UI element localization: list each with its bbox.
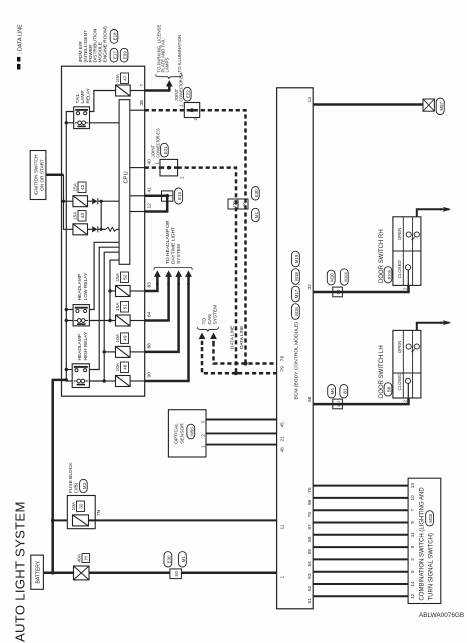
wire sensor pin1 to BCM 46 bbox=[206, 444, 277, 446]
label 15A 43 bbox=[73, 211, 86, 222]
label BCM pin 11 bbox=[279, 524, 285, 529]
arrow 84 bbox=[165, 270, 172, 285]
wire cpu pin41 bbox=[130, 195, 145, 197]
wire fuse43 output bbox=[88, 228, 120, 230]
svg-text:HEADLAMP: HEADLAMP bbox=[77, 334, 83, 360]
arrow to parking lamps bbox=[166, 80, 173, 92]
brace parking/illumination bbox=[156, 74, 183, 79]
label DATA LINE lower bbox=[239, 326, 244, 349]
label DATA LINE upper bbox=[229, 326, 234, 349]
wire sensor pin3 to BCM 45 bbox=[206, 419, 277, 421]
wire pin 38 dashed bbox=[145, 110, 277, 363]
label HEADLAMP LOW RELAY bbox=[77, 272, 89, 300]
svg-text:TO ILLUMINATION: TO ILLUMINATION bbox=[177, 35, 182, 73]
label BCM pin 75 bbox=[307, 487, 313, 493]
label comb switch pin 9 bbox=[410, 521, 415, 524]
node CAN B junction bbox=[243, 361, 247, 365]
label 15A 42 bbox=[73, 182, 86, 193]
label BCM pin 53 bbox=[307, 573, 313, 579]
connector oval E99 bbox=[120, 48, 128, 62]
svg-text:8G: 8G bbox=[174, 571, 179, 577]
wire high coil line3 bbox=[89, 252, 119, 381]
label pin 90 bbox=[147, 372, 153, 378]
svg-text:96: 96 bbox=[307, 499, 313, 505]
node high relay coil feed bbox=[65, 378, 68, 381]
arrow 88 bbox=[175, 270, 182, 285]
svg-text:E15: E15 bbox=[177, 192, 182, 200]
node low relay coil feed bbox=[65, 319, 68, 322]
wire battery bus horizontal bbox=[52, 380, 67, 573]
svg-text:M18: M18 bbox=[294, 272, 299, 281]
wire CAN A branch arrow bbox=[202, 345, 236, 373]
wire low relay coil feed bbox=[66, 320, 73, 322]
fuse 15A 51 bbox=[116, 315, 131, 326]
label 10A 48 bbox=[115, 362, 128, 373]
svg-text:: DATA LINE: : DATA LINE bbox=[17, 24, 23, 54]
svg-text:M57: M57 bbox=[439, 101, 444, 110]
label pin 41 bbox=[147, 187, 153, 193]
label sensor pin 2 bbox=[200, 434, 205, 437]
wire fuse block feed bbox=[53, 519, 277, 521]
node fuse42 tap bbox=[62, 200, 65, 203]
label BCM pin 76 bbox=[307, 512, 313, 518]
svg-text:M10: M10 bbox=[330, 273, 335, 282]
svg-text:48: 48 bbox=[123, 364, 129, 370]
svg-text:14: 14 bbox=[410, 581, 415, 587]
connector E15 box bbox=[162, 191, 173, 201]
svg-text:E30: E30 bbox=[166, 555, 171, 563]
label 10A 32 bbox=[71, 501, 84, 512]
label BCM pin 52 bbox=[307, 585, 313, 591]
wire low coil line4 bbox=[89, 260, 119, 320]
svg-text:2: 2 bbox=[402, 287, 407, 290]
fusible link 40A H bbox=[74, 566, 90, 580]
label BCM pin 97 bbox=[307, 524, 313, 530]
fuse block (J/B) box bbox=[67, 496, 95, 529]
wire fuse 52 feed bbox=[110, 290, 116, 292]
svg-text:M19: M19 bbox=[294, 254, 299, 263]
svg-text:OPEN: OPEN bbox=[397, 228, 402, 240]
title AUTO LIGHT SYSTEM bbox=[12, 501, 27, 642]
svg-text:E99: E99 bbox=[123, 51, 128, 59]
wire sensor pin2 to BCM 21 bbox=[206, 432, 277, 434]
svg-text:83: 83 bbox=[147, 282, 153, 288]
connector 8G (M1/E30) on battery wire bbox=[170, 569, 182, 579]
wire pin 41 external bbox=[145, 195, 168, 198]
label BCM pin 58 bbox=[307, 396, 313, 402]
svg-text:5: 5 bbox=[410, 570, 415, 573]
label TO ILLUMINATION bbox=[177, 35, 182, 73]
wire tail relay coil feed bbox=[66, 122, 73, 124]
figure number bbox=[419, 612, 464, 619]
connector 17J box (M6/B1) bbox=[333, 399, 343, 409]
wire door RH to ground arrow bbox=[417, 209, 442, 217]
svg-text:6G: 6G bbox=[241, 201, 246, 206]
svg-text:7: 7 bbox=[410, 509, 415, 512]
svg-text:TO: TO bbox=[201, 318, 207, 325]
svg-text:53: 53 bbox=[307, 573, 313, 579]
connector oval E30 (CAN) bbox=[252, 187, 260, 200]
label comb switch pin 5 bbox=[410, 570, 415, 573]
wire BCM pin58 to door switch LH bbox=[313, 398, 408, 404]
svg-text:84: 84 bbox=[147, 311, 153, 317]
svg-text:10: 10 bbox=[410, 495, 415, 501]
svg-text:76: 76 bbox=[307, 512, 313, 518]
relay tail lamp bbox=[74, 107, 90, 129]
wire cpu pin12 bbox=[130, 211, 145, 213]
svg-text:3: 3 bbox=[200, 421, 205, 424]
svg-text:7: 7 bbox=[139, 84, 145, 87]
label FUSE BLOCK (J/B) M3 bbox=[68, 462, 87, 493]
svg-text:2: 2 bbox=[193, 118, 198, 121]
svg-text:B108: B108 bbox=[387, 269, 392, 279]
label BCM pin 51 bbox=[307, 598, 313, 604]
fuse 10A 49 bbox=[116, 346, 131, 357]
label pin 12 bbox=[147, 203, 153, 209]
svg-text:49: 49 bbox=[123, 335, 129, 341]
svg-text:11: 11 bbox=[279, 524, 285, 529]
ground M57 bbox=[423, 99, 434, 111]
svg-text:45: 45 bbox=[279, 422, 285, 428]
svg-text:RELAY: RELAY bbox=[85, 87, 91, 103]
label comb switch pin 2 bbox=[410, 558, 415, 561]
label comb switch pin 14 bbox=[410, 581, 415, 587]
label 15A 52 bbox=[115, 272, 128, 283]
label CLOSED LH bbox=[397, 372, 402, 390]
wire fuse 48 feed bbox=[104, 380, 115, 382]
svg-text:42: 42 bbox=[80, 184, 86, 190]
wire door LH to ground arrow bbox=[417, 323, 442, 331]
svg-text:2: 2 bbox=[410, 558, 415, 561]
fuse 10A 48 bbox=[116, 376, 131, 387]
label pin 38 bbox=[139, 100, 145, 106]
svg-text:SYSTEM: SYSTEM bbox=[213, 305, 219, 325]
fuse 15A 52 bbox=[116, 286, 131, 297]
connector oval B8 bbox=[384, 383, 392, 396]
label BCM pin 13 bbox=[307, 97, 313, 103]
label OPEN RH bbox=[397, 228, 402, 240]
svg-text:SENSOR: SENSOR bbox=[180, 423, 186, 444]
svg-text:SYSTEM: SYSTEM bbox=[176, 244, 182, 264]
svg-text:2: 2 bbox=[180, 176, 185, 179]
label E21 pin 1 bbox=[155, 162, 160, 165]
wire high contact line2 bbox=[89, 247, 119, 369]
svg-text:TURN SIGNAL SWITCH): TURN SIGNAL SWITCH) bbox=[428, 533, 434, 600]
diode D1 bbox=[92, 198, 98, 204]
connector oval E21 bbox=[161, 143, 169, 157]
svg-text:52: 52 bbox=[123, 274, 129, 280]
svg-text:E21: E21 bbox=[163, 146, 168, 154]
connector oval E17 bbox=[110, 48, 118, 62]
label 10A 47 bbox=[115, 73, 128, 84]
svg-text:ENGINE ROOM): ENGINE ROOM) bbox=[103, 26, 109, 63]
IPDM E/R box bbox=[62, 66, 145, 396]
node low relay contact feed bbox=[65, 308, 68, 311]
label comb switch pin 13 bbox=[410, 483, 415, 489]
svg-text:CONNECTOR-E04: CONNECTOR-E04 bbox=[179, 72, 184, 101]
svg-text:43: 43 bbox=[80, 213, 86, 219]
wire fuse 42 feed bbox=[64, 200, 73, 202]
wire fuse52 to pin 83 bbox=[130, 290, 145, 292]
svg-text:E17: E17 bbox=[112, 51, 117, 59]
svg-text:10: 10 bbox=[336, 289, 341, 294]
wire pin 40 dashed bbox=[145, 168, 277, 374]
connector oval M10 bbox=[327, 270, 335, 285]
label sensor pin 3 bbox=[200, 421, 205, 424]
svg-text:40: 40 bbox=[147, 159, 153, 165]
wire ignition feed bbox=[46, 173, 64, 176]
svg-text:H: H bbox=[84, 556, 90, 560]
arrow CAN A bbox=[199, 333, 206, 346]
label JOINT CONNECTOR-E03 bbox=[151, 128, 161, 157]
wire low contact line1 bbox=[89, 242, 119, 309]
node E21 junction bbox=[167, 166, 171, 170]
svg-text:TO HEADLAMP OR: TO HEADLAMP OR bbox=[165, 220, 171, 264]
wire low relay contact feed bbox=[66, 309, 73, 311]
svg-text:41: 41 bbox=[147, 187, 153, 193]
svg-text:E30: E30 bbox=[254, 189, 259, 197]
label E21 pin 2 bbox=[180, 176, 185, 179]
wire BCM pin 51 to comb switch 12 bbox=[313, 595, 408, 597]
fuse 10A 47 bbox=[116, 85, 131, 96]
svg-text:15G: 15G bbox=[231, 200, 236, 207]
svg-text:CONNECTOR-E03: CONNECTOR-E03 bbox=[155, 128, 160, 157]
svg-text:M16: M16 bbox=[294, 307, 299, 316]
label TO PARKING, LICENSE PLATE AND TAIL LAMPS bbox=[157, 25, 170, 73]
wire pin 84 external bbox=[145, 283, 169, 321]
svg-text:46: 46 bbox=[279, 447, 285, 453]
label 10A 49 bbox=[115, 333, 128, 344]
svg-text:47: 47 bbox=[123, 75, 129, 81]
wire pin 83 external bbox=[145, 283, 158, 291]
wire tail coil to CPU bbox=[90, 122, 120, 124]
wire battery vertical feed to BCM pin 1 bbox=[43, 572, 277, 575]
label HEADLAMP HIGH RELAY bbox=[77, 331, 89, 360]
node fuse52 tap bbox=[108, 289, 111, 292]
svg-text:78: 78 bbox=[279, 356, 285, 362]
svg-text:B8: B8 bbox=[387, 386, 392, 392]
wire BCM pin 53 to comb switch 5 bbox=[313, 571, 408, 573]
label BCM pin 95 bbox=[307, 536, 313, 542]
connector oval E15 bbox=[175, 188, 183, 204]
label BCM pin 79 bbox=[279, 366, 285, 372]
connector 15G box bbox=[228, 199, 238, 209]
svg-text:2: 2 bbox=[200, 434, 205, 437]
label BCM pin 1 bbox=[279, 576, 285, 579]
wire internal battery bus bbox=[66, 112, 73, 380]
connector oval B1 bbox=[340, 385, 348, 398]
svg-text:95: 95 bbox=[307, 536, 313, 542]
label IPDM E/R (INTELLIGENT POWER DISTRIBUTION MODULE ENGINE ROOM) bbox=[78, 26, 109, 63]
label comb switch pin 12 bbox=[410, 593, 415, 599]
svg-text:LOW RELAY: LOW RELAY bbox=[83, 272, 89, 300]
connector oval M1 bbox=[179, 552, 187, 567]
svg-text:8: 8 bbox=[410, 545, 415, 548]
svg-text:21: 21 bbox=[279, 436, 285, 442]
label comb switch pin 7 bbox=[410, 509, 415, 512]
door switch RH contacts bbox=[405, 232, 419, 286]
node E22 junction bbox=[190, 108, 194, 112]
svg-text:OPEN: OPEN bbox=[397, 341, 402, 353]
svg-text:TAIL: TAIL bbox=[75, 93, 81, 103]
svg-text:BCM (BODY CONTROL MODULE): BCM (BODY CONTROL MODULE) bbox=[293, 322, 299, 400]
svg-text:13: 13 bbox=[307, 97, 313, 103]
connector oval B108 bbox=[384, 267, 392, 283]
label 15A 51 bbox=[115, 302, 128, 313]
label door RH pin 2 bbox=[402, 287, 407, 290]
label comb switch pin 10 bbox=[410, 495, 415, 501]
svg-text:M3: M3 bbox=[82, 482, 87, 489]
relay headlamp low bbox=[73, 305, 89, 326]
door switch LH box bbox=[393, 330, 421, 398]
svg-text:CPU: CPU bbox=[123, 171, 129, 183]
svg-text:CAN: CAN bbox=[207, 314, 213, 325]
label pin 83 bbox=[147, 282, 153, 288]
connector oval B104 bbox=[340, 269, 348, 285]
connector oval E30 bbox=[164, 552, 172, 567]
wire BCM pin 97 to comb switch 9 bbox=[313, 522, 408, 524]
connector oval E18 bbox=[110, 30, 118, 44]
svg-text:12: 12 bbox=[410, 593, 415, 599]
label BCM pin 54 bbox=[307, 561, 313, 567]
connector oval M6 bbox=[328, 385, 336, 398]
node tail relay coil feed bbox=[65, 121, 68, 124]
label 40A H bbox=[77, 553, 90, 562]
arrow 90 bbox=[185, 270, 192, 285]
legend text : DATA LINE bbox=[17, 24, 23, 54]
svg-text:51: 51 bbox=[307, 598, 313, 604]
door switch LH contacts bbox=[405, 344, 419, 398]
combination switch box bbox=[408, 478, 441, 603]
arrow door LH ground bbox=[440, 320, 451, 325]
label sensor pin 1 bbox=[200, 445, 205, 448]
wire fuse 49 feed bbox=[104, 351, 115, 353]
joint connector E22 box bbox=[184, 103, 199, 118]
fuse 10A 32 bbox=[73, 515, 89, 526]
label DOOR SWITCH LH bbox=[379, 345, 385, 398]
label pin 88 bbox=[147, 343, 153, 349]
svg-text:FUSE BLOCK: FUSE BLOCK bbox=[68, 462, 74, 493]
node battery bus junction bbox=[51, 571, 55, 575]
svg-text:LAMPS: LAMPS bbox=[165, 58, 170, 73]
wire BCM pin32 to door switch RH bbox=[313, 285, 408, 292]
connector 10 box (M10/B104) bbox=[333, 287, 343, 297]
label BCM pin 32 bbox=[307, 284, 313, 290]
wire BCM pin13 to ground bbox=[313, 103, 423, 106]
wire high relay coil feed bbox=[66, 380, 72, 382]
svg-text:13: 13 bbox=[410, 483, 415, 489]
label pin 84 bbox=[147, 311, 153, 317]
arrow 83 bbox=[154, 270, 161, 285]
svg-text:M28: M28 bbox=[428, 513, 433, 522]
label DOOR SWITCH RH bbox=[379, 229, 385, 283]
svg-text:DAYTIME LIGHT: DAYTIME LIGHT bbox=[170, 227, 176, 264]
CPU box bbox=[119, 100, 130, 265]
svg-text:E22: E22 bbox=[186, 90, 191, 98]
node crosslink left bbox=[100, 228, 103, 231]
svg-text:58: 58 bbox=[307, 396, 313, 402]
svg-text:75: 75 bbox=[307, 487, 313, 493]
label TO CAN SYSTEM bbox=[201, 305, 218, 325]
legend data-line dashes bbox=[17, 57, 20, 70]
wire fuse 47 to pin 7 bbox=[130, 90, 145, 92]
label door LH pin 2 bbox=[402, 400, 407, 403]
connector 6G box bbox=[238, 199, 248, 209]
label COMBINATION SWITCH (LIGHTING AND TURN SIGNAL SWITCH) M28 bbox=[420, 487, 435, 601]
optical sensor box bbox=[168, 410, 206, 457]
arrow door RH ground bbox=[440, 207, 451, 212]
svg-text:88: 88 bbox=[147, 343, 153, 349]
node crosslink right bbox=[100, 200, 103, 203]
label BCM pin 21 bbox=[279, 436, 285, 442]
ignition switch box bbox=[30, 151, 46, 200]
label BCM (BODY CONTROL MODULE) with connectors bbox=[292, 251, 302, 399]
svg-text:32: 32 bbox=[307, 284, 313, 290]
label TO HEADLAMP OR DAYTIME LIGHT SYSTEM bbox=[165, 220, 182, 264]
svg-text:HIGH RELAY: HIGH RELAY bbox=[83, 331, 89, 360]
wire BCM pin 96 to comb switch 10 bbox=[313, 497, 408, 499]
wire cpu pin38 bbox=[130, 109, 145, 111]
svg-text:32: 32 bbox=[79, 503, 85, 509]
label JOINT CONNECTOR-E04 bbox=[174, 72, 184, 101]
arrow CAN B bbox=[210, 333, 217, 346]
fuse 15A 43 bbox=[73, 224, 88, 235]
svg-text:OPTICAL: OPTICAL bbox=[174, 423, 180, 444]
wire cpu pin40 bbox=[130, 167, 145, 169]
node CAN A junction bbox=[234, 371, 238, 375]
diode D2 bbox=[92, 226, 98, 232]
label OPEN LH bbox=[397, 341, 402, 353]
brace to CAN system bbox=[197, 327, 218, 331]
svg-text:B104: B104 bbox=[343, 272, 348, 282]
svg-text:1: 1 bbox=[279, 576, 285, 579]
wire diode crosslink bbox=[100, 201, 102, 229]
svg-text:51: 51 bbox=[123, 304, 129, 310]
label BCM pin 45 bbox=[279, 422, 285, 428]
svg-text:97: 97 bbox=[307, 524, 313, 530]
label E22 pin 1 bbox=[179, 104, 184, 107]
svg-text:M56: M56 bbox=[189, 427, 194, 436]
svg-text:52: 52 bbox=[307, 585, 313, 591]
wire BCM pin 76 to comb switch 7 bbox=[313, 509, 408, 511]
battery bbox=[31, 555, 44, 589]
node fuse49 tap bbox=[103, 350, 106, 353]
label pin 7 bbox=[139, 84, 145, 87]
joint connector E21 box bbox=[160, 159, 178, 176]
svg-text:2: 2 bbox=[402, 400, 407, 403]
svg-text:1: 1 bbox=[155, 162, 160, 165]
wire high relay contact feed bbox=[66, 369, 72, 371]
svg-text:B1: B1 bbox=[342, 388, 347, 394]
BCM box bbox=[277, 88, 314, 609]
svg-text:IGNITION SWITCH: IGNITION SWITCH bbox=[33, 155, 38, 196]
resistor R1 bbox=[106, 227, 117, 231]
svg-text:CLOSED: CLOSED bbox=[397, 372, 402, 390]
svg-text:E18: E18 bbox=[112, 32, 117, 40]
wire BCM pin 75 to comb switch 13 bbox=[313, 485, 408, 487]
label E22 pin 2 bbox=[193, 118, 198, 121]
svg-text:M6: M6 bbox=[330, 388, 335, 395]
label OPTICAL SENSOR M56 bbox=[174, 423, 195, 444]
wire BCM pin 95 to comb switch 11 bbox=[313, 534, 408, 536]
svg-text:HEADLAMP: HEADLAMP bbox=[77, 274, 83, 300]
svg-text:54: 54 bbox=[307, 561, 313, 567]
svg-text:7N: 7N bbox=[96, 509, 102, 516]
connector oval M1 (CAN) bbox=[252, 208, 260, 221]
svg-text:55: 55 bbox=[307, 549, 313, 555]
connector oval M57 bbox=[436, 98, 444, 115]
node fuse51 junction bbox=[108, 319, 111, 322]
